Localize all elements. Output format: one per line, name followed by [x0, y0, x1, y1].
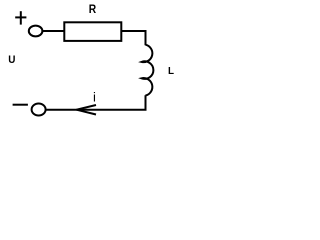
plus sign	[15, 11, 26, 24]
current arrow i	[77, 105, 97, 115]
svg-text:U: U	[8, 54, 15, 66]
resistor R	[64, 22, 121, 41]
wire	[43, 30, 64, 32]
svg-text:R: R	[89, 2, 97, 16]
inductor L	[142, 45, 154, 96]
minus sign	[13, 104, 28, 106]
svg-text:i: i	[93, 90, 96, 105]
terminal T1 (+)	[29, 26, 43, 37]
svg-text:L: L	[168, 66, 174, 77]
wire	[122, 31, 146, 45]
terminal T2 (-)	[32, 104, 46, 116]
wire	[46, 95, 145, 110]
